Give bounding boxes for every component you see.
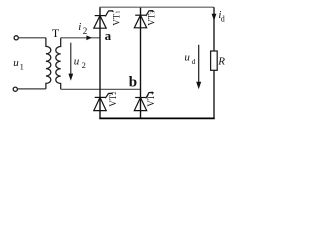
- terminal bottom-left: [13, 87, 17, 91]
- left bridge leg: [99, 7, 101, 118]
- right bridge leg: [140, 7, 142, 118]
- svg-text:a: a: [105, 28, 112, 43]
- wire: secondary top to node a: [61, 37, 100, 39]
- svg-text:2: 2: [82, 60, 86, 70]
- svg-text:d: d: [221, 14, 225, 23]
- transformer secondary winding: [56, 38, 61, 90]
- load resistor R: [211, 51, 218, 70]
- thyristor VT3: [134, 11, 153, 28]
- wire: primary bottom to bottom terminal: [18, 88, 46, 90]
- wire: secondary bottom to node b: [61, 88, 141, 90]
- svg-text:T: T: [52, 26, 60, 40]
- voltage arrow ud: [198, 45, 200, 84]
- bottom rail: [99, 117, 214, 119]
- current arrow id: [212, 14, 217, 21]
- svg-text:1: 1: [20, 62, 24, 72]
- voltage arrow u2: [70, 43, 72, 77]
- svg-text:u: u: [184, 51, 190, 63]
- svg-text:b: b: [129, 75, 137, 91]
- thyristor VT1: [94, 11, 114, 28]
- svg-text:u: u: [13, 57, 19, 69]
- terminal top-left: [14, 36, 18, 40]
- transformer T primary winding: [46, 38, 51, 89]
- svg-text:u: u: [74, 55, 80, 67]
- svg-text:2: 2: [83, 26, 88, 36]
- right branch wire: [213, 7, 215, 118]
- thyristor VT4: [134, 92, 153, 110]
- svg-text:R: R: [217, 56, 225, 68]
- svg-text:d: d: [192, 57, 196, 66]
- current arrow i2: [86, 35, 91, 40]
- wire: top terminal to primary: [19, 37, 46, 39]
- thyristor VT2: [94, 93, 113, 110]
- svg-text:i: i: [78, 21, 81, 33]
- top rail: [99, 6, 214, 8]
